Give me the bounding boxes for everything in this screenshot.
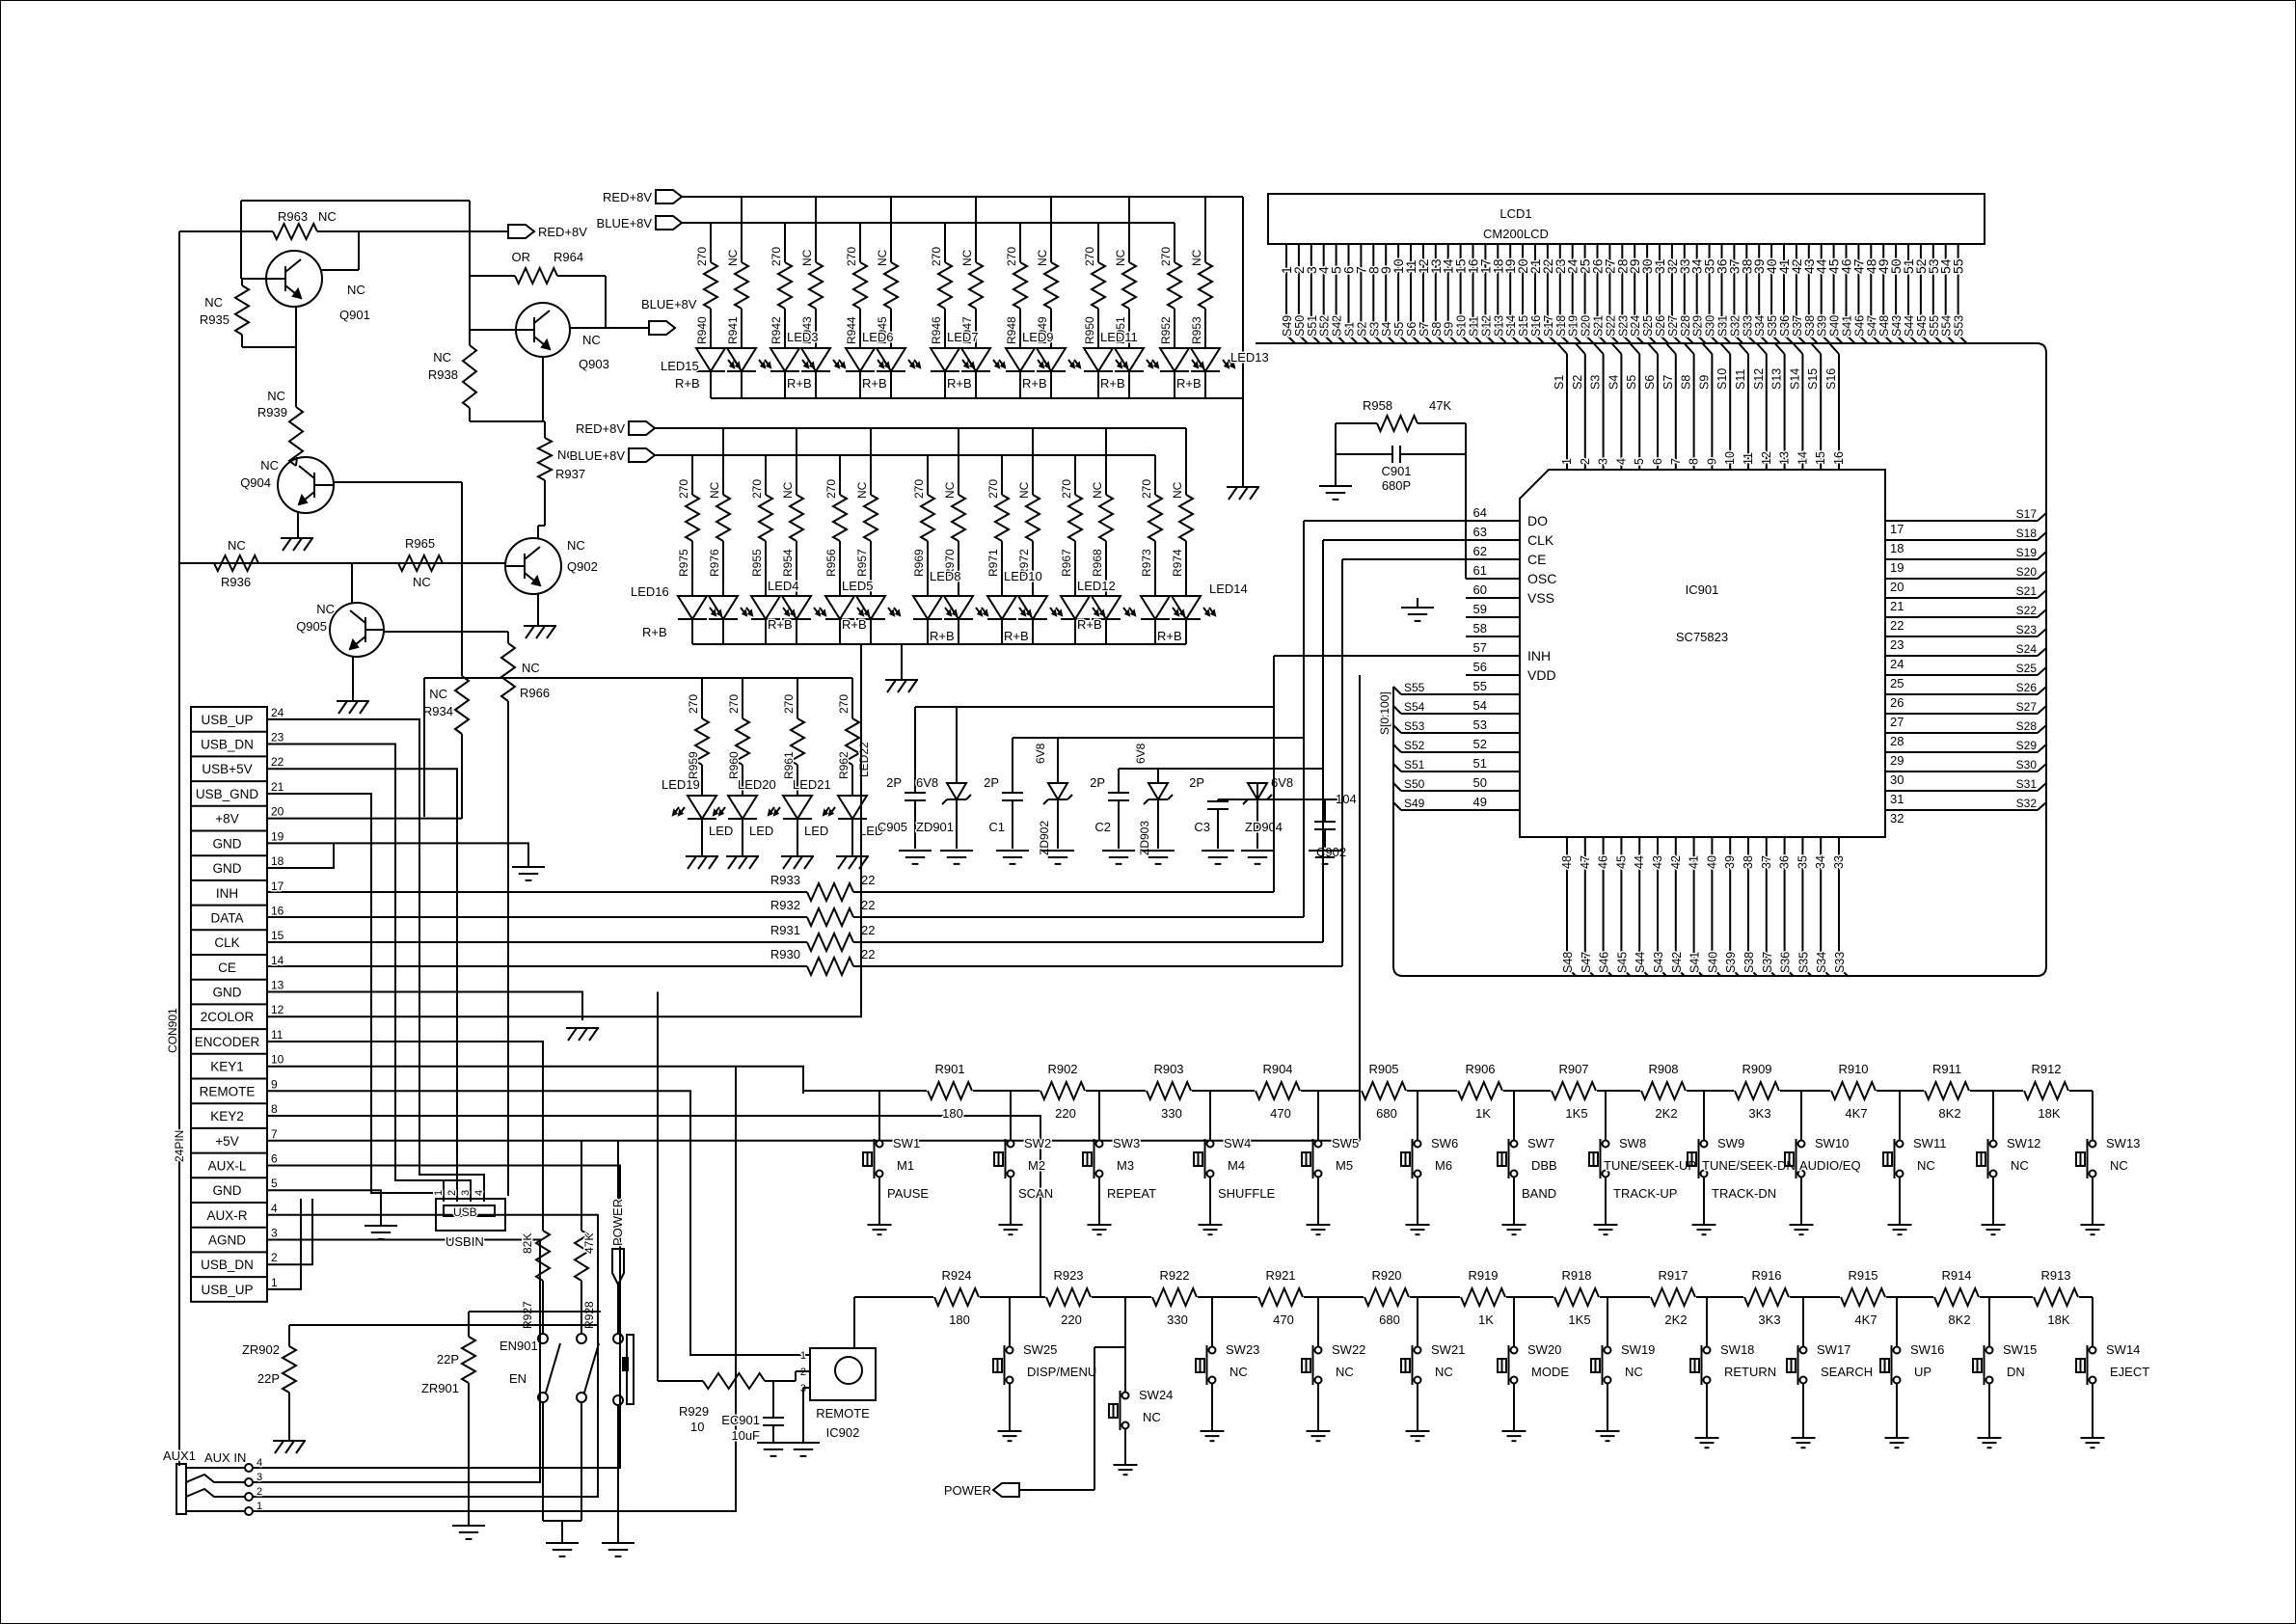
svg-text:64: 64 xyxy=(1473,505,1487,520)
IC901 pin 34 S34 xyxy=(1814,837,1829,976)
svg-text:M1: M1 xyxy=(897,1158,914,1173)
svg-text:R936: R936 xyxy=(221,575,251,589)
resistor R921 470 xyxy=(1258,1268,1303,1327)
svg-text:680P: 680P xyxy=(1382,478,1411,493)
svg-text:180: 180 xyxy=(942,1106,963,1121)
label S[0:100] bus xyxy=(1378,691,1391,735)
resistor R923 220 xyxy=(1046,1268,1091,1327)
transistor Q905 xyxy=(296,563,384,657)
svg-text:KEY1: KEY1 xyxy=(210,1060,244,1074)
svg-text:R930: R930 xyxy=(770,947,800,961)
label LED15 xyxy=(661,359,700,391)
svg-text:Q901: Q901 xyxy=(339,308,370,322)
svg-text:NC: NC xyxy=(943,481,957,499)
ground row1 xyxy=(1227,487,1259,500)
svg-text:2P: 2P xyxy=(984,775,999,790)
svg-text:S29: S29 xyxy=(2016,739,2038,752)
svg-text:DISP/MENU: DISP/MENU xyxy=(1027,1365,1096,1379)
wire vertical to IC R932 xyxy=(1304,521,1466,917)
svg-text:LED9: LED9 xyxy=(1022,330,1054,344)
CON901 pin 1 USB_UP xyxy=(201,1276,278,1297)
svg-text:3: 3 xyxy=(460,1190,472,1196)
svg-text:R961: R961 xyxy=(782,751,796,779)
svg-text:LCD1: LCD1 xyxy=(1499,206,1531,221)
ground under ZD904 xyxy=(1241,851,1274,864)
LCD pin 18 S13 xyxy=(1490,244,1506,343)
label LED4 xyxy=(768,579,799,632)
LCD pin 42 S37 xyxy=(1789,244,1805,343)
svg-text:R917: R917 xyxy=(1658,1268,1688,1283)
LED LED22 xyxy=(824,796,867,856)
resistor ZR901 22P xyxy=(421,1312,601,1526)
ground SW25 xyxy=(998,1431,1022,1441)
svg-text:470: 470 xyxy=(1273,1313,1294,1327)
wire base line y584 xyxy=(179,562,506,564)
svg-text:S19: S19 xyxy=(1567,315,1580,337)
svg-text:ZD904: ZD904 xyxy=(1245,820,1283,834)
ground EC901 xyxy=(757,1443,790,1456)
svg-text:S30: S30 xyxy=(1704,315,1717,337)
svg-text:SEARCH: SEARCH xyxy=(1821,1365,1873,1379)
wire AUX contact1 xyxy=(253,1066,736,1511)
svg-text:R948: R948 xyxy=(1005,316,1018,344)
svg-text:LED4: LED4 xyxy=(768,579,799,593)
CON901 pin 5 GND xyxy=(213,1177,279,1198)
IC901 pin 3 S3 xyxy=(1589,343,1610,470)
IC901 pin 6 S6 xyxy=(1643,343,1664,470)
svg-text:22: 22 xyxy=(271,755,284,769)
switch SW2 xyxy=(994,1091,1053,1225)
switch SW23 xyxy=(1196,1297,1259,1431)
USBIN pin 1 xyxy=(433,1181,445,1199)
svg-text:4K7: 4K7 xyxy=(1845,1106,1867,1121)
switch SW7 xyxy=(1498,1091,1557,1225)
label LED10 xyxy=(1004,569,1042,643)
resistor R953 NC xyxy=(1190,197,1212,348)
switch SW8 xyxy=(1589,1091,1696,1225)
svg-text:S41: S41 xyxy=(1688,952,1702,973)
IC901 pin 11 S11 xyxy=(1734,343,1755,470)
svg-text:R904: R904 xyxy=(1262,1062,1292,1076)
svg-text:11: 11 xyxy=(1742,452,1755,465)
svg-text:NC: NC xyxy=(316,602,335,616)
zener diode ZD903 6V8 xyxy=(1134,743,1173,855)
AUX1 contact 2 xyxy=(186,1486,262,1501)
svg-text:UP: UP xyxy=(1914,1365,1931,1379)
svg-text:18K: 18K xyxy=(2038,1106,2060,1121)
IC901 pin 8 S8 xyxy=(1680,343,1701,470)
IC901 pin 52 xyxy=(1466,737,1520,752)
net flag RED+8V xyxy=(508,225,587,239)
svg-text:7: 7 xyxy=(1669,458,1683,465)
svg-text:S16: S16 xyxy=(1529,315,1543,337)
svg-text:M3: M3 xyxy=(1117,1158,1134,1173)
svg-text:ZR902: ZR902 xyxy=(242,1342,280,1357)
transistor Q903 xyxy=(516,303,609,371)
resistor R959 270 xyxy=(687,678,709,796)
LCD pin 30 S25 xyxy=(1639,244,1656,343)
USBIN pin 2 xyxy=(446,1181,458,1199)
ground under ZD902 xyxy=(1041,851,1074,864)
ground C901 xyxy=(1319,454,1352,500)
resistor R961 270 xyxy=(782,678,804,796)
resistor R917 2K2 xyxy=(1651,1268,1695,1327)
svg-text:S37: S37 xyxy=(1761,952,1774,973)
IC901 pin 24 S24 xyxy=(1885,642,2046,671)
svg-text:8: 8 xyxy=(1688,458,1701,465)
svg-text:SW25: SW25 xyxy=(1023,1342,1057,1357)
svg-text:45: 45 xyxy=(1614,855,1628,869)
LCD pin 37 S32 xyxy=(1726,244,1742,343)
svg-text:S31: S31 xyxy=(2016,777,2038,791)
svg-text:R909: R909 xyxy=(1742,1062,1771,1076)
svg-text:SW7: SW7 xyxy=(1527,1136,1554,1150)
svg-text:R950: R950 xyxy=(1083,316,1096,344)
ground row2 xyxy=(885,680,918,692)
label POWER rotated xyxy=(610,1199,625,1246)
net flag BLUE+8V row1 xyxy=(597,216,682,230)
label LED3 xyxy=(787,330,819,391)
resistor R903 330 xyxy=(1147,1062,1191,1121)
svg-text:ZD901: ZD901 xyxy=(916,820,954,834)
ground under C1 xyxy=(996,851,1029,864)
svg-text:AUDIO/EQ: AUDIO/EQ xyxy=(1799,1158,1861,1173)
svg-text:SW1: SW1 xyxy=(893,1136,920,1150)
svg-text:12: 12 xyxy=(1760,451,1773,465)
resistor R904 470 xyxy=(1256,1062,1300,1121)
svg-text:59: 59 xyxy=(1473,602,1487,616)
IC901 pin 2 S2 xyxy=(1571,343,1592,470)
ground under C2 xyxy=(1102,851,1135,864)
svg-text:S7: S7 xyxy=(1418,322,1431,337)
svg-text:26: 26 xyxy=(1890,695,1904,710)
label LED6 xyxy=(862,330,894,391)
svg-text:S17: S17 xyxy=(2016,507,2038,521)
svg-text:SW11: SW11 xyxy=(1913,1136,1946,1150)
LCD pin 7 S2 xyxy=(1353,244,1369,343)
svg-text:35: 35 xyxy=(1796,855,1809,869)
LED LED5 twin die xyxy=(825,596,900,644)
LCD pin 20 S15 xyxy=(1515,244,1531,343)
wire AUX-L pin6 xyxy=(253,1166,620,1469)
LCD pin 38 S33 xyxy=(1739,244,1755,343)
svg-text:15: 15 xyxy=(271,929,284,942)
ground SW5 xyxy=(1307,1225,1331,1234)
ground under LED19 xyxy=(686,856,718,869)
svg-text:GND: GND xyxy=(213,836,242,851)
svg-text:S31: S31 xyxy=(1716,315,1730,337)
resistor R948 270 xyxy=(1005,223,1027,348)
svg-text:SW17: SW17 xyxy=(1817,1342,1850,1357)
svg-text:49: 49 xyxy=(1473,795,1487,809)
LCD pin 9 S4 xyxy=(1378,244,1394,343)
wire USB+5V pin22 xyxy=(267,769,457,1202)
wire VSS ground xyxy=(1401,598,1434,621)
svg-text:680: 680 xyxy=(1376,1106,1397,1121)
svg-text:M6: M6 xyxy=(1435,1158,1452,1173)
svg-text:S36: S36 xyxy=(1778,315,1792,337)
ground GND19 xyxy=(512,867,545,880)
IC901 pin 21 S21 xyxy=(1885,584,2046,613)
LCD pin 41 S36 xyxy=(1776,244,1793,343)
svg-text:VSS: VSS xyxy=(1527,590,1554,606)
svg-text:22P: 22P xyxy=(437,1352,459,1367)
svg-text:16: 16 xyxy=(271,905,284,918)
svg-text:S26: S26 xyxy=(1654,315,1667,337)
resistor R973 270 xyxy=(1140,455,1162,596)
svg-text:270: 270 xyxy=(1159,247,1173,266)
svg-text:RED+8V: RED+8V xyxy=(576,421,625,436)
svg-text:SW15: SW15 xyxy=(2003,1342,2037,1357)
resistor R940 270 xyxy=(695,223,717,348)
wire RED+8V bus row1 xyxy=(682,197,1243,398)
label LED13 xyxy=(1176,350,1269,391)
LCD pin 31 S26 xyxy=(1652,244,1668,343)
svg-text:CLK: CLK xyxy=(214,935,239,950)
LCD pin 50 S43 xyxy=(1888,244,1904,343)
svg-text:S1: S1 xyxy=(1553,375,1566,390)
svg-text:270: 270 xyxy=(687,694,700,714)
ground SW8 xyxy=(1594,1225,1618,1234)
ground SW21 xyxy=(1406,1431,1430,1441)
IC901 pin 57 INH xyxy=(1466,640,1551,663)
svg-text:SW24: SW24 xyxy=(1139,1388,1173,1402)
transistor Q902 xyxy=(505,538,598,594)
LCD pin 14 S9 xyxy=(1441,244,1457,343)
LCD pin 24 S19 xyxy=(1565,244,1581,343)
svg-text:EN901: EN901 xyxy=(500,1339,538,1353)
svg-text:S28: S28 xyxy=(2016,719,2038,733)
label LED11 xyxy=(1100,330,1138,391)
svg-text:24: 24 xyxy=(271,706,284,719)
svg-text:S52: S52 xyxy=(1404,739,1425,752)
svg-text:3: 3 xyxy=(257,1472,262,1483)
wire S50 to pin 50 xyxy=(1393,777,1466,791)
svg-text:S24: S24 xyxy=(2016,642,2038,656)
svg-text:47K: 47K xyxy=(582,1233,596,1254)
svg-text:270: 270 xyxy=(845,247,858,266)
svg-text:63: 63 xyxy=(1473,525,1487,539)
svg-text:S43: S43 xyxy=(1652,952,1665,973)
svg-text:S21: S21 xyxy=(1592,315,1606,337)
svg-text:1K5: 1K5 xyxy=(1565,1106,1587,1121)
svg-text:R957: R957 xyxy=(855,549,869,577)
capacitor C902 104 xyxy=(1314,792,1357,859)
wire Q901 emitter xyxy=(295,307,297,407)
resistor R945 NC xyxy=(876,197,898,348)
svg-text:BLUE+8V: BLUE+8V xyxy=(597,216,653,230)
svg-text:4K7: 4K7 xyxy=(1854,1313,1877,1327)
LCD pin 54 S54 xyxy=(1938,244,1955,343)
svg-text:S26: S26 xyxy=(2016,681,2038,694)
svg-text:40: 40 xyxy=(1705,855,1718,869)
wire USB_UP pin1 xyxy=(267,1199,301,1289)
svg-text:270: 270 xyxy=(912,479,926,499)
svg-text:RED+8V: RED+8V xyxy=(603,190,652,204)
svg-text:R959: R959 xyxy=(687,751,700,779)
svg-text:S1: S1 xyxy=(1343,322,1357,337)
wire GND pin5 xyxy=(267,1190,381,1226)
svg-text:ZR901: ZR901 xyxy=(421,1381,459,1395)
svg-text:NC: NC xyxy=(855,481,869,499)
svg-text:NC: NC xyxy=(228,538,246,553)
IC901 pin 51 xyxy=(1466,756,1520,771)
svg-text:2P: 2P xyxy=(1189,775,1204,790)
svg-text:R914: R914 xyxy=(1941,1268,1971,1283)
svg-text:KEY2: KEY2 xyxy=(210,1109,244,1123)
LCD pin 5 S42 xyxy=(1329,244,1345,343)
IC901 pin 62 CE xyxy=(1466,544,1546,567)
LCD pin 11 S6 xyxy=(1403,244,1419,343)
svg-text:LED3: LED3 xyxy=(787,330,819,344)
switch SW3 xyxy=(1083,1091,1156,1225)
svg-text:SHUFFLE: SHUFFLE xyxy=(1218,1186,1276,1201)
resistor R968 NC xyxy=(1091,428,1113,596)
svg-text:LED21: LED21 xyxy=(793,777,831,792)
svg-text:S53: S53 xyxy=(1404,719,1425,733)
svg-text:CON901: CON901 xyxy=(166,1008,179,1053)
svg-text:R940: R940 xyxy=(695,316,709,344)
svg-text:S35: S35 xyxy=(1796,952,1810,973)
wire Q904 emitter xyxy=(297,512,299,538)
IC901 pin 25 S25 xyxy=(1885,662,2046,690)
svg-text:RETURN: RETURN xyxy=(1724,1365,1776,1379)
svg-text:TRACK-UP: TRACK-UP xyxy=(1613,1186,1677,1201)
svg-text:S54: S54 xyxy=(1940,315,1954,337)
LCD pin 52 S45 xyxy=(1913,244,1930,343)
svg-text:R913: R913 xyxy=(2040,1268,2070,1283)
svg-text:R958: R958 xyxy=(1363,398,1392,413)
svg-text:R935: R935 xyxy=(200,312,230,327)
svg-text:S2: S2 xyxy=(1571,375,1584,390)
label LED9 xyxy=(1022,330,1054,391)
svg-text:2P: 2P xyxy=(886,775,902,790)
IC901 pin 55 xyxy=(1466,679,1520,694)
label LED20 xyxy=(738,777,776,838)
resistor R924 180 xyxy=(934,1268,979,1327)
svg-text:S30: S30 xyxy=(2016,758,2038,771)
ground SW2 xyxy=(999,1225,1023,1234)
svg-text:R918: R918 xyxy=(1561,1268,1591,1283)
CON901 pin 15 CLK xyxy=(214,929,284,950)
svg-text:6V8: 6V8 xyxy=(1134,743,1148,764)
IC901 pin 58 xyxy=(1466,621,1520,636)
CON901 pin 19 GND xyxy=(213,829,284,851)
label LED5 xyxy=(842,579,874,632)
svg-text:R967: R967 xyxy=(1060,549,1073,577)
svg-text:1: 1 xyxy=(271,1276,278,1289)
ground SW9 xyxy=(1692,1225,1716,1234)
svg-text:BLUE+8V: BLUE+8V xyxy=(641,297,697,311)
LCD pin 51 S44 xyxy=(1901,244,1917,343)
svg-text:6V8: 6V8 xyxy=(916,775,938,790)
ground SW15 xyxy=(1978,1438,2002,1448)
ground under LED20 xyxy=(726,856,759,869)
net flag BLUE+8V from Q903 xyxy=(570,297,697,335)
wire vertical to IC R933 xyxy=(1274,656,1466,892)
resistor R952 270 xyxy=(1159,223,1181,348)
svg-text:47K: 47K xyxy=(1429,398,1451,413)
svg-text:SW23: SW23 xyxy=(1226,1342,1259,1357)
IC901 pin 18 S18 xyxy=(1885,527,2046,555)
IC901 pin 10 S10 xyxy=(1715,343,1737,470)
svg-text:10uF: 10uF xyxy=(731,1428,760,1443)
switch SW24 xyxy=(1109,1297,1173,1465)
svg-text:470: 470 xyxy=(1270,1106,1291,1121)
ground SW20 xyxy=(1502,1431,1526,1441)
resistor R949 NC xyxy=(1036,197,1058,348)
svg-text:22: 22 xyxy=(861,873,875,887)
svg-text:SW5: SW5 xyxy=(1332,1136,1359,1150)
svg-text:S48: S48 xyxy=(1561,952,1575,973)
svg-text:R+B: R+B xyxy=(1176,376,1202,391)
svg-text:EC901: EC901 xyxy=(721,1413,760,1427)
svg-text:S24: S24 xyxy=(1629,315,1642,337)
svg-text:270: 270 xyxy=(695,247,709,266)
ground SW19 xyxy=(1596,1431,1620,1441)
CON901 pin 14 CE xyxy=(218,954,284,975)
svg-text:Q904: Q904 xyxy=(240,475,271,490)
svg-text:R916: R916 xyxy=(1751,1268,1781,1283)
svg-text:LED16: LED16 xyxy=(631,584,669,599)
resistor R915 4K7 xyxy=(1841,1268,1885,1327)
svg-text:R903: R903 xyxy=(1153,1062,1183,1076)
LCD pin 8 S3 xyxy=(1365,244,1382,343)
svg-text:EJECT: EJECT xyxy=(2110,1365,2149,1379)
svg-text:S4: S4 xyxy=(1380,322,1393,337)
svg-text:NC: NC xyxy=(318,209,337,224)
wire top rail left xyxy=(179,231,241,1466)
wire feed line C1/ZD902 xyxy=(1013,737,1304,739)
svg-text:NC: NC xyxy=(347,283,365,297)
svg-text:S49: S49 xyxy=(1281,315,1294,337)
svg-text:SW16: SW16 xyxy=(1910,1342,1944,1357)
ground SW16 xyxy=(1885,1438,1909,1448)
resistor R937 NC xyxy=(538,421,585,539)
svg-text:TUNE/SEEK-DN: TUNE/SEEK-DN xyxy=(1702,1158,1796,1173)
LCD pin 15 S10 xyxy=(1453,244,1470,343)
LED LED6 twin die xyxy=(846,348,920,398)
svg-text:S11: S11 xyxy=(1468,316,1481,337)
LCD pin 49 S48 xyxy=(1876,244,1892,343)
svg-text:REMOTE: REMOTE xyxy=(200,1084,256,1098)
svg-text:2: 2 xyxy=(446,1190,458,1196)
svg-text:S13: S13 xyxy=(1770,368,1784,390)
svg-text:BLUE+8V: BLUE+8V xyxy=(570,448,626,463)
svg-text:S49: S49 xyxy=(1404,797,1425,810)
svg-text:S39: S39 xyxy=(1816,315,1829,337)
svg-text:S16: S16 xyxy=(1824,368,1838,390)
svg-text:10: 10 xyxy=(690,1420,704,1434)
LCD pin 12 S7 xyxy=(1416,244,1432,343)
svg-text:9: 9 xyxy=(1705,458,1718,465)
ground SW12 xyxy=(1982,1225,2006,1234)
ground SW24 xyxy=(1114,1465,1138,1475)
ground GND13 xyxy=(566,1028,599,1041)
IC901 pin 36 S36 xyxy=(1778,837,1794,976)
IC901 pin 41 S41 xyxy=(1688,837,1703,976)
svg-text:LED13: LED13 xyxy=(1230,350,1269,365)
switch SW20 xyxy=(1498,1297,1569,1431)
LCD pin 19 S14 xyxy=(1502,244,1519,343)
svg-text:S[0:100]: S[0:100] xyxy=(1378,691,1391,735)
svg-text:S29: S29 xyxy=(1691,315,1705,337)
svg-text:55: 55 xyxy=(1473,679,1487,693)
svg-text:R+B: R+B xyxy=(947,376,972,391)
svg-text:USB_GND: USB_GND xyxy=(196,787,259,801)
svg-text:SW14: SW14 xyxy=(2106,1342,2140,1357)
svg-text:S6: S6 xyxy=(1643,375,1657,390)
